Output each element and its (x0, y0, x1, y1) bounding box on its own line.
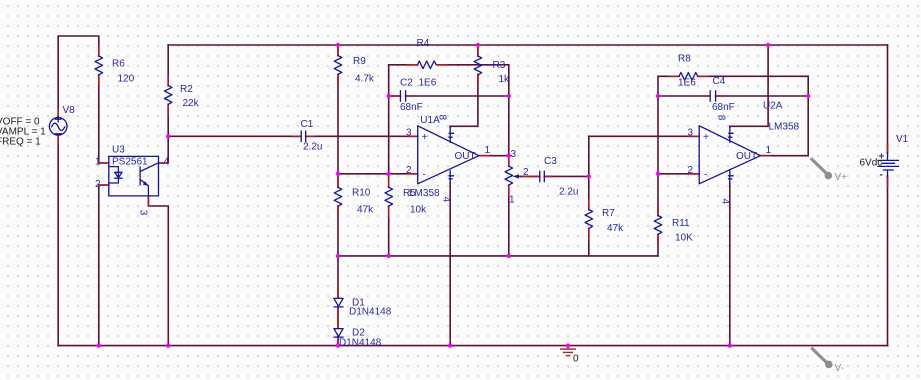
svg-text:R3: R3 (493, 60, 506, 71)
wire R4 row left (389, 64, 418, 66)
svg-text:1: 1 (485, 145, 491, 156)
svg-text:C2: C2 (400, 78, 413, 89)
wire C2 row right (406, 95, 509, 97)
svg-text:3: 3 (406, 128, 412, 139)
op-amp U2A power pin stubs (729, 127, 734, 143)
resistor R7 (585, 210, 593, 229)
svg-text:R9: R9 (353, 56, 366, 67)
wire R11 top (657, 174, 659, 216)
svg-text:-: - (704, 170, 707, 181)
svg-text:1: 1 (95, 157, 101, 168)
wire node A to C1 (168, 135, 301, 137)
U3 phototransistor (139, 167, 141, 185)
svg-text:3: 3 (511, 149, 517, 160)
svg-text:1E6: 1E6 (419, 78, 437, 89)
resistor R6 (95, 56, 103, 75)
wire C2 row left (389, 95, 401, 97)
svg-text:R11: R11 (672, 218, 690, 229)
svg-text:V8: V8 (63, 105, 76, 116)
wire C4 row left (658, 95, 710, 97)
wire U1A minus input row (338, 173, 418, 175)
pin leads D2 (337, 319, 339, 346)
svg-text:R6: R6 (112, 59, 125, 70)
pin leads R3 (477, 46, 479, 85)
wire node B up and to U2A plus input (589, 136, 699, 176)
op-amp U2A triangle (699, 126, 760, 184)
svg-text:+: + (703, 132, 709, 143)
svg-text:R7: R7 (602, 208, 615, 219)
svg-text:47k: 47k (357, 205, 374, 216)
pin leads U1A (408, 136, 489, 174)
ground 0 (561, 346, 576, 356)
wire pot top (508, 156, 510, 166)
wire top bus (168, 44, 887, 46)
resistor R2 (164, 86, 172, 105)
svg-text:1: 1 (766, 145, 772, 156)
capacitor C4 (710, 91, 715, 102)
svg-text:OUT: OUT (736, 151, 757, 162)
wire bottom bus (58, 345, 887, 347)
svg-text:PS2561: PS2561 (112, 157, 148, 168)
wire R4 left side down to C2 and minus node (388, 65, 390, 174)
svg-text:47k: 47k (607, 223, 624, 234)
svg-text:68nF: 68nF (400, 102, 423, 113)
svg-text:U3: U3 (112, 145, 125, 156)
wire R5 top (388, 174, 390, 188)
svg-text:+: + (879, 151, 885, 162)
wire U3 pin4 up to node A (159, 136, 169, 163)
wire R2 top (167, 45, 169, 86)
diode D2 (334, 329, 343, 337)
pin leads D1 (337, 288, 339, 317)
wire U2A minus input row (658, 173, 699, 175)
svg-text:22k: 22k (183, 98, 200, 109)
wire D1 cathode to D2 anode (337, 307, 339, 328)
svg-text:2.2u: 2.2u (303, 142, 322, 153)
pin leads R7 (588, 200, 590, 239)
wire C1 to U1A plus input (306, 135, 418, 137)
resistor R8 horizontal (679, 73, 698, 81)
svg-text:FREQ = 1: FREQ = 1 (0, 137, 41, 148)
pin leads R4 (407, 64, 447, 66)
pin leads V1 (887, 144, 889, 187)
svg-text:-: - (880, 170, 883, 181)
svg-text:V+: V+ (835, 172, 848, 183)
wire R9 bottom through minus node to R10 top (337, 75, 339, 188)
svg-text:2: 2 (406, 165, 412, 176)
svg-text:8: 8 (437, 115, 448, 121)
svg-text:R10: R10 (352, 188, 371, 199)
U3 LED (109, 167, 119, 183)
resistor R9 (334, 56, 342, 75)
wire U3 pin2 down to bus (99, 185, 109, 346)
svg-text:1k: 1k (499, 74, 511, 85)
svg-text:V1: V1 (896, 134, 909, 145)
resistor R11 (654, 216, 662, 235)
svg-text:4: 4 (720, 199, 731, 205)
svg-text:R2: R2 (180, 84, 193, 95)
wire R8 row right and down to U2A output (698, 76, 808, 155)
pin leads R5 (388, 177, 390, 216)
wire R3 top (477, 45, 479, 56)
svg-text:C1: C1 (301, 119, 314, 130)
pin leads U3 (99, 163, 168, 206)
svg-text:4: 4 (441, 197, 452, 203)
wire U1A pin 4 down to bus (449, 183, 451, 346)
pin leads R9 (337, 46, 339, 85)
wire R3 bottom to U1A pin8 (450, 75, 478, 127)
probe V+ (811, 158, 832, 179)
svg-text:OUT: OUT (455, 151, 476, 162)
pin leads R10 (337, 177, 339, 216)
svg-text:+: + (422, 132, 428, 143)
wire R10 bottom to rail and D1 (337, 206, 339, 298)
pin leads R2 (167, 76, 169, 115)
capacitor C1 (301, 131, 306, 142)
wire R2 bottom to node A (167, 105, 169, 137)
svg-text:2: 2 (688, 165, 694, 176)
svg-text:4: 4 (164, 157, 170, 168)
svg-text:U2A: U2A (763, 101, 783, 112)
svg-text:2: 2 (95, 179, 101, 190)
svg-text:2.2u: 2.2u (559, 187, 578, 198)
pin leads C2 (392, 95, 413, 97)
svg-text:1: 1 (509, 195, 515, 206)
wire U3 pin3 down to bus (148, 196, 168, 346)
svg-text:4.7k: 4.7k (355, 74, 375, 85)
svg-text:D1N4148: D1N4148 (339, 338, 382, 349)
wire D2 cathode to bus (337, 337, 339, 346)
optocoupler U3 box (109, 156, 159, 196)
resistor R3 (474, 56, 482, 75)
op-amp U1A triangle (418, 126, 479, 184)
wire lower rail (338, 255, 658, 257)
potentiometer body (505, 166, 513, 185)
wire U2A pin 8 to top bus (730, 45, 768, 128)
svg-text:-: - (423, 170, 426, 181)
svg-text:1E6: 1E6 (678, 78, 696, 89)
svg-text:C3: C3 (544, 156, 557, 167)
wire C3 to node B (544, 175, 589, 177)
diode D1 (334, 298, 343, 306)
svg-text:68nF: 68nF (712, 102, 735, 113)
wire R6 bottom to U3 pin1 (99, 75, 109, 163)
pin leads R11 (657, 206, 659, 245)
potentiometer wiper arrow (514, 175, 521, 177)
pin leads R8 (669, 75, 708, 77)
svg-text:8: 8 (715, 115, 726, 121)
probe V- (811, 348, 832, 368)
wire U2A pin 4 down to bus (729, 183, 731, 346)
pin leads V8 (57, 109, 59, 145)
wire R8 C4 left side down to U2A minus node (657, 76, 659, 174)
resistor R10 (334, 187, 342, 206)
svg-text:C4: C4 (713, 76, 726, 87)
wire R11 bottom to rail end (657, 235, 659, 256)
wire battery bottom to bus (887, 176, 889, 346)
resistor R5 (385, 187, 393, 206)
capacitor C3 (540, 171, 545, 182)
op-amp U1A power pin stubs (449, 127, 454, 143)
svg-text:LM358: LM358 (769, 122, 800, 133)
pin leads R6 (98, 46, 100, 85)
wire C4 row right (716, 95, 809, 97)
wire V8 top to R6 top (58, 36, 99, 118)
source V8 circle (49, 118, 67, 136)
wire R7 bottom to rail (588, 229, 590, 256)
svg-text:2: 2 (523, 167, 529, 178)
wire R8 row left (658, 75, 679, 77)
svg-text:0: 0 (573, 354, 579, 365)
svg-text:3: 3 (688, 128, 694, 139)
wire R7 top (588, 176, 590, 209)
pin leads C1 (293, 135, 314, 137)
pin leads C4 (702, 95, 723, 97)
wire U1A pin 8 stub (449, 126, 451, 127)
svg-text:3: 3 (137, 210, 148, 216)
wire R9 top (337, 45, 339, 56)
svg-text:R4: R4 (417, 38, 430, 49)
wire R4 row right and down to U1A output (438, 65, 509, 156)
wire pot wiper to C3 (521, 175, 540, 177)
pin leads U2A (689, 136, 770, 174)
wire V8 bottom down (57, 135, 59, 346)
resistor R4 horizontal (417, 61, 436, 69)
svg-text:D1N4148: D1N4148 (349, 307, 392, 318)
wire right side from top bus to battery (887, 45, 889, 153)
svg-text:10K: 10K (675, 233, 693, 244)
svg-text:V-: V- (835, 363, 844, 374)
pin leads potentiometer (509, 157, 530, 197)
wire U2A output (760, 155, 808, 157)
svg-text:10k: 10k (410, 205, 427, 216)
wire U1A output (479, 155, 509, 157)
svg-text:120: 120 (118, 74, 135, 85)
wire R5 bottom to rail (388, 206, 390, 256)
capacitor C2 (400, 91, 405, 102)
svg-text:LM358: LM358 (409, 188, 440, 199)
pin leads C3 (532, 175, 553, 177)
wire pot bottom to rail (508, 187, 510, 256)
svg-text:R8: R8 (678, 54, 691, 65)
battery V1 (878, 152, 899, 177)
